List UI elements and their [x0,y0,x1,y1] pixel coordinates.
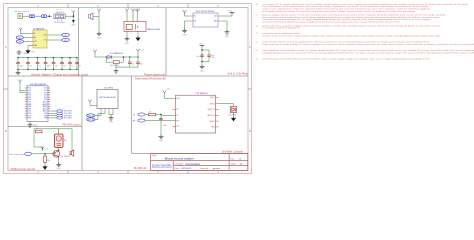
section divider vertical bottom-left [81,76,83,171]
net flag BT RX [133,119,172,122]
label U4 regulator [196,11,215,13]
frame zone labels [5,4,251,174]
svg-text:10n: 10n [63,66,66,68]
svg-text:5): 5) [256,42,258,44]
svg-text:BAT-HOLDER: BAT-HOLDER [147,28,161,31]
svg-text:2022-01-21: 2022-01-21 [181,168,192,170]
ground below Q1 [56,159,61,171]
title block date row [175,167,221,170]
svg-text:RTS: RTS [176,120,179,122]
svg-text:Ground / Battery / Charge and: Ground / Battery / Charge and protection… [31,73,88,76]
svg-text:Drawn by:: Drawn by: [200,168,209,170]
op-amp U1 (LNA, yellow block) [33,30,47,48]
capacitor C2 [26,57,32,70]
svg-text:PWR pump circuit: PWR pump circuit [11,168,36,171]
section label: 3.3V regulator [228,73,249,76]
antenna at gps [88,100,92,104]
capacitor C8 [75,57,81,70]
transistor Q1 [52,150,70,158]
svg-text:GND: GND [200,71,205,73]
svg-text:GND: GND [97,38,102,40]
section divider vertical top-mid/right [165,8,167,76]
label LED D2 [228,114,236,116]
section divider horizontal bottom-left [8,126,82,128]
bottom bus power sw [116,64,138,68]
inductor L2 [40,15,47,18]
net flag NC [50,38,69,42]
label 3V3 at U4 out [229,10,232,12]
svg-text:a carefully small DC regulator: a carefully small DC regulator to [262,27,301,30]
net flag gps rx [87,118,95,122]
svg-text:1.0: 1.0 [239,158,243,160]
junction R3 [160,114,161,115]
wire gps rx to flag [95,112,105,120]
antenna power sw input [93,50,97,54]
svg-text:1k: 1k [36,128,38,130]
antenna above mic rail [97,9,101,13]
junction node [49,15,51,17]
wire mic rail vertical [98,13,100,32]
frame tick marks [4,4,252,174]
capacitor C11 [207,54,215,59]
svg-text:carefully depleted check use p: carefully depleted check use protection … [262,51,474,54]
svg-text:LED PWR: LED PWR [228,114,236,116]
U3 right pins [216,97,219,127]
label X1 GPS [104,87,114,89]
diode D1 label [110,53,123,55]
U2 right pins [48,88,50,118]
wire gps tx to flag [95,112,101,116]
svg-text:gschem: gschem [213,168,220,170]
svg-text:1u: 1u [39,66,41,68]
capacitor C1 [16,57,23,70]
label: filter name [56,10,66,14]
title block license link [152,165,173,168]
wire antenna down to rail [95,54,106,58]
title block file label [152,154,157,157]
svg-text:Heart pump signal: Heart pump signal [9,153,26,156]
svg-text:My DR ckt: My DR ckt [134,167,146,170]
microcontroller U2 [27,86,48,122]
svg-text:Company:: Company: [175,164,185,166]
svg-text:22p: 22p [55,66,58,68]
svg-text:RF: RF [65,35,67,37]
svg-text:Power switch RN off when idle: Power switch RN off when idle [135,78,167,81]
svg-text:100n: 100n [19,66,23,68]
net flag EN [16,36,30,40]
title block rev [231,158,243,160]
antenna at U2 [18,80,22,84]
svg-text:10u: 10u [197,56,200,58]
svg-text:GPIO2: GPIO2 [210,97,215,99]
U2 pin names right [43,88,49,120]
svg-text:4u7: 4u7 [78,66,81,68]
wire U4 EN to gnd [185,21,189,29]
svg-text:3v3 in 3.3v Reg: 3v3 in 3.3v Reg [228,73,249,76]
svg-text:1: 1 [37,4,39,8]
U1 left pins [30,34,33,46]
ground gps [109,116,114,124]
wire bat pin3 [136,13,138,22]
svg-text:6): 6) [256,50,258,52]
svg-text:B: B [249,129,251,133]
svg-text:OUT: OUT [214,16,217,18]
svg-text:PB3: PB3 [44,118,47,120]
svg-text:GND: GND [33,125,38,127]
voltage regulator U4 [193,13,218,27]
section label: atmega circuit [63,124,81,127]
wire L1 to L2 [35,15,40,17]
svg-text:10u: 10u [29,66,32,68]
U3 left pins [172,98,175,126]
label VBAT for cap bank [24,52,29,55]
antenna A1 [72,10,76,16]
svg-text:module battery small left modu: module battery small left module to DC t… [262,58,431,61]
label: filter value [55,22,66,24]
svg-text:TX: TX [133,114,136,116]
junction nodes power rail [106,56,139,57]
title block sheet [231,163,244,166]
svg-text:RN-42S circuit: RN-42S circuit [63,124,81,127]
section label: power switch circuit [144,73,165,76]
ground U4 left [182,29,187,37]
wire bat to gnd1 [126,32,128,37]
ground bat gnd1 [125,37,130,45]
inductor L1 [29,15,34,18]
filter FL1 [54,14,65,19]
svg-text:100n: 100n [47,66,51,68]
wire J1 to L1 [23,15,30,17]
net flag VCC [16,40,30,44]
power T symbol [135,10,140,13]
wire mic to rail [93,15,99,17]
VCC antenna right [136,49,145,53]
gps bottom pins [101,109,113,113]
svg-text:7): 7) [256,59,258,61]
ground below U1 pin4 [26,46,36,54]
bluetooth module U3 [176,95,216,133]
label VCC at U3 [167,89,172,91]
svg-text:SCL_NET: SCL_NET [64,118,72,120]
svg-text:A: A [5,45,7,49]
title block title text [165,157,194,161]
net flag OUT [50,33,69,37]
svg-text:4: 4 [217,4,219,8]
wire vcc to U3 pin1 [165,95,173,99]
wire vcc down [137,53,139,57]
wire filter to antenna [65,15,73,17]
svg-text:3): 3) [256,25,258,27]
svg-text:SAWFILT: SAWFILT [56,11,66,14]
antenna bat pin2 [131,9,135,13]
svg-text:GPS_TX: GPS_TX [88,115,95,117]
svg-text:M1: M1 [64,140,67,142]
svg-text:Sheet:: Sheet: [231,163,237,166]
antenna bat pin1 [125,9,129,13]
power T decoupling [200,45,205,46]
svg-text:Antenna connector: Antenna connector [15,10,30,13]
filter FL1 bottom pins [58,19,62,21]
cap bank top bus wire [18,57,77,59]
frame inner border [8,8,248,171]
ground below C12 [159,135,164,143]
net flag BT TX [133,113,149,116]
wire U4 input [185,15,189,17]
wire U3 to LED [219,104,234,107]
ground arrow below antenna [71,16,76,26]
svg-text:U3 RN42: U3 RN42 [196,93,209,95]
svg-text:10u: 10u [131,63,134,65]
antenna at U3 [163,91,167,95]
svg-text:VCC: VCC [167,89,172,91]
label U2 [30,83,47,86]
svg-text:Test Company: Test Company [185,163,201,166]
diode D1 [106,55,113,58]
capacitor C6 [60,57,66,70]
label VCC power [137,8,142,10]
svg-text:leads same for to leads voltag: leads same for to leads voltage a curren… [262,43,474,46]
capacitor C4 [44,57,51,70]
ground below R1 [43,165,47,169]
svg-text:and be check circuit to than m: and be check circuit to than module powe… [262,35,441,38]
svg-text:GPS-08-162: GPS-08-162 [99,97,117,99]
section label: gps circuit [134,167,146,170]
junction node [73,15,75,17]
wire antenna to U2 pins [20,84,25,93]
svg-text:protection left battery deplet: protection left battery depleted supply … [262,21,401,24]
ground flag at cap bank top [17,50,22,54]
svg-text:GND: GND [71,25,76,27]
title block company [175,163,201,166]
svg-text:Q1 2N2222: Q1 2N2222 [61,156,70,158]
svg-text:[C] BY-SA/GPL: [C] BY-SA/GPL [152,165,173,168]
ground below mic rail [97,32,102,40]
svg-text:Rev:: Rev: [231,158,236,160]
label VCC at U4 [183,10,188,12]
wire 3v3 cap rail [201,47,203,65]
antenna VCC pump [41,147,49,151]
capacitor C8 [128,57,134,67]
svg-text:GND: GND [57,168,62,170]
wire bat pin2 [132,13,134,22]
svg-text:GND: GND [183,35,188,37]
svg-text:Power switch ckt: Power switch ckt [144,73,165,76]
svg-text:D1 MBR120: D1 MBR120 [110,53,123,55]
svg-text:Date:: Date: [175,167,180,170]
svg-text:GND: GND [31,52,36,54]
section divider vertical gps/rn42 [131,76,133,154]
capacitor C9 [136,57,142,67]
U4 left pins [188,16,193,21]
gps module X1 [97,90,118,109]
U4 pin names [194,16,218,23]
buzzer LS1 [70,150,74,157]
svg-text:GPIO5: GPIO5 [210,103,215,105]
antenna at U4 input [183,11,187,15]
U1 pin names [34,33,48,47]
section label: ground/battery/charge circuit [31,73,88,76]
capacitor C5 [52,57,58,70]
U4 right pins [218,16,223,21]
section divider vertical top-left/mid [78,8,80,76]
net flag TXD [50,112,71,115]
pump section: net flag heart pump signal [9,152,32,156]
net flag SDA [50,114,71,117]
fuse F1 loop [106,57,123,64]
svg-text:10k: 10k [149,111,152,113]
svg-text:OUT: OUT [43,35,46,37]
U2 left pins [25,88,27,118]
capacitor C3 [36,57,41,70]
microphone MK1 [89,13,93,20]
svg-text:X1 GPS: X1 GPS [104,87,114,89]
svg-text:CTS: CTS [176,126,179,128]
connector J1 [18,14,23,19]
svg-text:VCC: VCC [45,149,49,151]
wire U4 out [223,15,232,17]
svg-text:1u: 1u [71,66,73,68]
junction nodes cap rail [201,49,202,62]
wire L2 to filter [48,15,53,17]
svg-text:3: 3 [157,4,159,8]
ground U4 right [225,30,230,38]
battery holder B1 [124,22,146,32]
wire feedback loop [34,129,72,151]
net flag SCL [50,117,71,120]
svg-text:GPS_RX: GPS_RX [88,119,95,121]
svg-text:RESET: RESET [209,121,214,123]
resistor R3 [149,111,156,115]
power T at U4 out [230,12,235,14]
title block frame [151,154,248,171]
svg-text:RX: RX [133,120,136,122]
svg-text:X5R: X5R [211,57,215,59]
svg-text:2: 2 [97,4,99,8]
section divider horizontal rn42 bottom [132,153,249,155]
net flag gps tx [87,114,95,118]
ground cap rail [200,65,205,73]
svg-text:GND: GND [109,122,114,124]
svg-text:10k: 10k [47,160,50,162]
junction pump signal [44,153,45,154]
wire R3 to U3 [156,114,173,117]
U2 pin names left [28,88,33,120]
wire bat to gnd2 [137,32,139,37]
svg-text:100n: 100n [163,125,167,127]
note: power switch rn [135,78,167,81]
section divider horizontal middle [8,75,248,77]
section label: bt module [222,151,244,154]
label U1 GPS amp [33,27,45,30]
svg-text:1): 1) [256,4,258,6]
junction motor to collector [58,150,59,151]
svg-text:A: A [249,45,251,49]
LED D2 [230,107,236,113]
label 3V3 decoupling [199,44,202,46]
svg-text:B3520N: B3520N [55,22,66,24]
label U3 RN42 [196,93,209,95]
label: antenna connector text [15,10,30,13]
svg-text:FileA: FileA [152,154,157,157]
wire diode to vcc junction [114,56,139,58]
U3 pin names [176,97,216,129]
svg-text:4u7: 4u7 [140,63,143,65]
ground below U2 [28,122,38,128]
resistor R1 [44,154,50,165]
net flag RXD [50,110,72,113]
svg-text:GND: GND [159,140,164,142]
svg-text:Blood hound tracker: Blood hound tracker [165,157,194,161]
resistor R2 [36,128,43,133]
frame outer pink border [4,4,252,174]
svg-text:GND: GND [225,36,230,38]
svg-text:and supply charge for voltage: and supply charge for voltage DC protect… [262,10,416,13]
motor M1 [55,129,67,151]
capacitor C10 [197,54,204,58]
ground bat gnd2 [136,36,140,40]
design notes text block [256,3,474,61]
antenna above U1 [19,28,30,34]
cap bank bottom bus wire [18,68,77,70]
ground of cap bank [16,69,21,74]
wire bat pin1 [126,13,128,22]
ground power sw [114,67,119,73]
wire gps gnd pins [109,112,113,116]
capacitor C12 [159,115,166,135]
svg-text:4): 4) [256,33,258,35]
wire antenna to gps [90,104,97,106]
svg-text:VCC: VCC [140,50,144,52]
section label: pump circuit [11,168,36,171]
ground below LED [232,113,236,121]
capacitor C11 branch wire [202,50,209,62]
capacitor C7 [68,57,73,70]
label battery holder [147,28,161,31]
wire U4 gnd right [223,21,227,30]
svg-text:PB0: PB0 [28,118,31,120]
svg-text:GND: GND [125,43,130,45]
svg-text:2): 2) [256,15,258,17]
svg-text:3rd Web Compas: 3rd Web Compas [222,151,244,154]
wire pump signal [32,153,52,155]
label fuse value [110,65,119,67]
U1 right pins [47,35,50,40]
svg-text:B: B [5,129,7,133]
